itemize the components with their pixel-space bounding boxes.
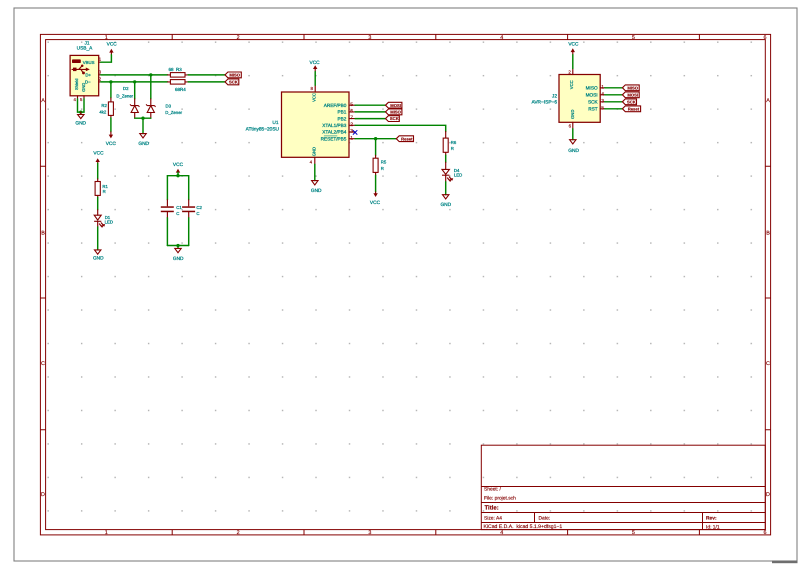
- svg-text:GND: GND: [568, 148, 579, 154]
- svg-text:1: 1: [105, 530, 108, 536]
- wire VCC to R1: [97, 163, 99, 179]
- J2 pin 5: [600, 108, 605, 110]
- svg-text:File: projet.sch: File: projet.sch: [484, 495, 516, 501]
- J2 pin 2 VCC: [572, 69, 574, 75]
- ground at U1: [311, 181, 322, 194]
- power VCC inverted below R5: [370, 192, 381, 206]
- junction zener gnd: [141, 117, 144, 120]
- LED D1: [94, 210, 113, 228]
- svg-text:GND: GND: [138, 141, 149, 147]
- svg-text:GND: GND: [570, 110, 575, 119]
- wire VCC to J2 pin 2: [572, 55, 574, 69]
- svg-text:VCC: VCC: [312, 93, 317, 102]
- svg-text:MISO: MISO: [229, 73, 240, 78]
- power VCC inverted below R2: [106, 132, 117, 147]
- svg-text:5: 5: [601, 105, 604, 111]
- svg-text:U1: U1: [272, 120, 278, 126]
- svg-text:VCC: VCC: [106, 141, 117, 147]
- IC U1 ATtiny85-20SU: [246, 85, 355, 164]
- svg-text:KiCad E.D.A. kicad 5.1.9+dfsg: KiCad E.D.A. kicad 5.1.9+dfsg1−1: [484, 524, 563, 530]
- ground at capacitors: [173, 248, 184, 261]
- wire cap bottom rail: [167, 245, 188, 247]
- global label MOSI (J2): [622, 92, 639, 98]
- svg-text:VCC: VCC: [569, 80, 574, 89]
- wire PB5 reset: [355, 138, 396, 140]
- svg-text:MISO: MISO: [390, 110, 401, 115]
- junction cap bottom: [176, 244, 179, 247]
- svg-text:XTAL1/PB3: XTAL1/PB3: [322, 123, 347, 128]
- svg-text:2: 2: [237, 35, 240, 41]
- svg-text:MOSI: MOSI: [390, 103, 401, 108]
- title block: [481, 445, 765, 530]
- svg-text:C: C: [41, 361, 45, 367]
- wire R1 to D1: [97, 197, 99, 209]
- svg-text:GND: GND: [75, 121, 86, 127]
- ground at J1: [75, 112, 86, 127]
- svg-text:C1: C1: [176, 205, 182, 210]
- junction D+ at D3: [149, 73, 152, 76]
- wire D4 to gnd: [445, 182, 447, 195]
- svg-text:MOSI: MOSI: [586, 93, 598, 98]
- frame reference numbers top: [105, 35, 767, 41]
- U1 pin 4 GND: [314, 157, 316, 164]
- ground at D1: [93, 250, 104, 262]
- frame reference numbers bottom: [105, 530, 767, 536]
- svg-text:MISO: MISO: [627, 85, 638, 90]
- power VCC at U1: [310, 60, 321, 72]
- no-connect PB4: [353, 130, 357, 134]
- svg-text:GND: GND: [81, 83, 86, 92]
- resistor R5: [373, 139, 387, 192]
- wire PB2 to label: [355, 118, 385, 120]
- wire U1 pin 4 to gnd: [314, 164, 316, 180]
- svg-text:PB1: PB1: [338, 110, 347, 115]
- wire J2 MISO: [605, 87, 623, 89]
- svg-text:SCK: SCK: [588, 100, 599, 105]
- svg-text:R5: R5: [381, 160, 387, 165]
- frame reference letters right: [766, 98, 770, 498]
- J1 pin 1 VBUS: [99, 61, 101, 63]
- svg-text:D−: D−: [85, 80, 91, 85]
- zener diode D3: [146, 75, 182, 118]
- resistor R4 68: [168, 80, 189, 92]
- svg-text:Shield: Shield: [74, 78, 79, 90]
- svg-text:6: 6: [350, 109, 353, 115]
- svg-text:3: 3: [601, 98, 604, 104]
- svg-text:A: A: [41, 98, 45, 104]
- svg-text:D: D: [41, 492, 45, 498]
- resistor R1: [95, 179, 108, 198]
- svg-text:RESET/PB5: RESET/PB5: [321, 136, 347, 141]
- svg-text:Title:: Title:: [485, 505, 499, 512]
- svg-text:XTAL2/PB4: XTAL2/PB4: [322, 130, 347, 135]
- wire D1 to gnd: [97, 227, 99, 250]
- svg-text:SCK: SCK: [229, 80, 238, 85]
- J1 pin 2 D-: [99, 81, 101, 83]
- svg-text:RST: RST: [588, 107, 598, 112]
- svg-text:VCC: VCC: [370, 200, 381, 206]
- global label MISO (usb): [225, 72, 241, 78]
- svg-text:MISO: MISO: [586, 86, 598, 91]
- svg-text:PB2: PB2: [338, 116, 347, 121]
- svg-text:Date:: Date:: [539, 516, 551, 522]
- svg-text:4: 4: [500, 530, 503, 536]
- wire PB3 to R6: [355, 125, 446, 131]
- junction D- at R2: [109, 80, 112, 83]
- wire VCC cap rail: [177, 172, 179, 175]
- svg-text:AVR−ISP−6: AVR−ISP−6: [531, 100, 557, 106]
- svg-text:R2: R2: [101, 103, 107, 108]
- svg-text:68 R3: 68 R3: [169, 67, 183, 72]
- svg-text:VCC: VCC: [173, 162, 184, 168]
- svg-text:D3: D3: [166, 104, 172, 109]
- wire R4 to label: [188, 81, 225, 83]
- svg-text:4k2: 4k2: [99, 109, 107, 114]
- wire PB1 to label: [355, 111, 385, 113]
- svg-text:C: C: [196, 211, 199, 216]
- junction cap top: [176, 174, 179, 177]
- wire D+: [101, 74, 168, 76]
- svg-text:GND: GND: [173, 256, 184, 262]
- wire R3 to label: [188, 74, 225, 76]
- resistor R2 4k2: [99, 82, 113, 132]
- global label MOSI (U1): [386, 102, 402, 108]
- page shadow: [772, 561, 798, 564]
- svg-text:GND: GND: [311, 188, 322, 194]
- svg-text:5: 5: [632, 35, 635, 41]
- svg-text:C2: C2: [196, 205, 202, 210]
- wire cap top rail: [167, 175, 188, 177]
- global label SCK (J2): [622, 99, 636, 105]
- svg-text:J2: J2: [552, 93, 557, 99]
- global label Reset (U1): [396, 136, 413, 142]
- svg-text:Reset: Reset: [401, 136, 413, 141]
- svg-text:C: C: [176, 211, 179, 216]
- svg-text:VCC: VCC: [310, 60, 321, 66]
- svg-text:D_Zener: D_Zener: [165, 110, 182, 115]
- power VCC at R1: [93, 151, 104, 164]
- svg-text:1: 1: [601, 84, 604, 90]
- capacitor C1: [161, 176, 183, 246]
- resistor R6: [443, 132, 457, 163]
- wire PB0 to label: [355, 104, 385, 106]
- svg-text:4: 4: [500, 35, 503, 41]
- svg-text:D2: D2: [123, 86, 129, 91]
- wire zener commons: [135, 117, 151, 119]
- ground at D4: [440, 195, 451, 208]
- power VCC at capacitors: [173, 162, 184, 173]
- wire J2 MOSI: [605, 94, 623, 96]
- svg-text:Reset: Reset: [628, 106, 640, 111]
- svg-text:GND: GND: [93, 255, 104, 261]
- J2 pin 6 GND: [572, 122, 574, 129]
- svg-text:VBUS: VBUS: [83, 60, 95, 65]
- junction reset: [374, 137, 377, 140]
- svg-text:B: B: [766, 231, 770, 237]
- svg-text:3: 3: [368, 530, 371, 536]
- svg-text:Id: 1/1: Id: 1/1: [706, 524, 720, 530]
- wire VCC to U1 pin 8: [314, 72, 316, 86]
- svg-text:2: 2: [350, 122, 353, 128]
- svg-text:7: 7: [350, 115, 353, 121]
- svg-text:GND: GND: [440, 202, 451, 208]
- svg-text:5: 5: [632, 530, 635, 536]
- wire J2 pin 6 to gnd: [572, 129, 574, 140]
- ground at zeners: [138, 134, 149, 148]
- svg-text:C: C: [766, 361, 770, 367]
- svg-text:R: R: [451, 146, 454, 151]
- resistor R3 68: [168, 67, 189, 77]
- svg-text:VCC: VCC: [107, 41, 118, 47]
- U1 pin 3: [349, 131, 355, 133]
- zener diode D2: [116, 82, 139, 118]
- wire cap rail to gnd: [177, 246, 179, 249]
- frame reference letters left: [41, 98, 45, 498]
- svg-text:SCK: SCK: [627, 99, 636, 104]
- J1 pin 5 shield: [83, 96, 85, 99]
- svg-text:A: A: [766, 98, 770, 104]
- J1 pin 3 D+: [99, 74, 101, 76]
- global label SCK (U1): [386, 116, 400, 122]
- wire D-: [101, 81, 168, 83]
- svg-text:Size: A4: Size: A4: [484, 516, 502, 522]
- U1 pin 2: [349, 124, 355, 126]
- svg-text:LED: LED: [105, 220, 113, 225]
- wire J2 SCK: [605, 101, 623, 103]
- connector J1 USB_A: [70, 41, 102, 102]
- svg-text:VCC: VCC: [568, 42, 579, 48]
- svg-text:Rev:: Rev:: [706, 515, 717, 521]
- J1 pin 4 GND: [77, 96, 79, 99]
- svg-text:1: 1: [105, 35, 108, 41]
- global label MISO (U1): [386, 109, 402, 115]
- U1 pin 5: [349, 104, 355, 106]
- ground at J2: [568, 140, 579, 154]
- svg-text:VCC: VCC: [93, 151, 104, 157]
- wire J2 RST: [605, 108, 623, 110]
- svg-text:D_Zener: D_Zener: [116, 93, 133, 98]
- svg-text:SCK: SCK: [390, 116, 399, 121]
- svg-text:D: D: [766, 492, 770, 498]
- svg-text:68R4: 68R4: [175, 87, 186, 92]
- svg-text:6: 6: [764, 530, 767, 536]
- power VCC at J2: [568, 42, 579, 55]
- J2 pin 3: [600, 101, 605, 103]
- svg-text:AREF/PB0: AREF/PB0: [324, 103, 347, 108]
- U1 pin 1: [349, 138, 355, 140]
- U1 pin 6: [349, 111, 355, 113]
- svg-text:1: 1: [350, 135, 353, 141]
- power VCC at J1: [107, 41, 118, 54]
- svg-text:R6: R6: [451, 140, 457, 145]
- svg-text:USB_A: USB_A: [77, 46, 94, 52]
- LED D4: [442, 162, 462, 182]
- wire VBUS to VCC: [101, 55, 112, 62]
- svg-text:6: 6: [764, 35, 767, 41]
- junction shield gnd: [79, 110, 82, 113]
- svg-text:4: 4: [601, 91, 604, 97]
- svg-text:MOSI: MOSI: [627, 92, 638, 97]
- svg-text:LED: LED: [454, 173, 462, 178]
- capacitor C2: [182, 176, 202, 246]
- J2 pin 1: [600, 87, 605, 89]
- svg-text:ATtiny85−20SU: ATtiny85−20SU: [246, 127, 280, 133]
- svg-text:B: B: [41, 231, 45, 237]
- svg-text:2: 2: [237, 530, 240, 536]
- svg-text:3: 3: [350, 129, 353, 135]
- junction D- at D2: [133, 80, 136, 83]
- global label MISO (J2): [622, 85, 639, 91]
- svg-text:5: 5: [350, 102, 353, 108]
- svg-text:GND: GND: [312, 147, 317, 156]
- svg-text:D+: D+: [85, 72, 91, 77]
- svg-text:R: R: [381, 166, 384, 171]
- U1 pin 7: [349, 118, 355, 120]
- SCHEMATIC CONTENT: [70, 41, 641, 262]
- global label Reset (J2): [622, 106, 640, 112]
- wire J1 shield pins to ground: [78, 99, 85, 112]
- svg-text:R: R: [103, 189, 106, 194]
- svg-text:Sheet: /: Sheet: /: [484, 487, 501, 493]
- wire to gnd: [142, 118, 144, 133]
- global label SCK (usb): [225, 79, 239, 85]
- svg-text:3: 3: [368, 35, 371, 41]
- connector J2 AVR-ISP-6: [531, 69, 604, 129]
- U1 pin 8 VCC: [314, 85, 316, 92]
- J2 pin 4: [600, 94, 605, 96]
